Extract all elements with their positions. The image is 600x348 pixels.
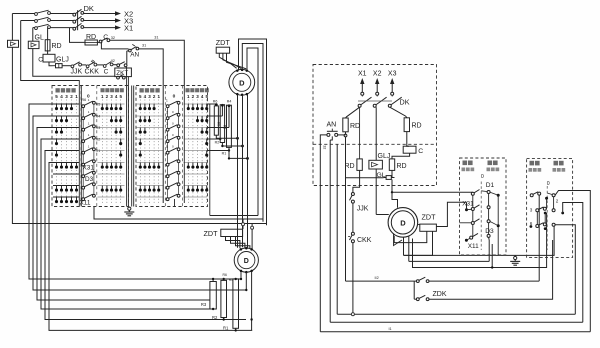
svg-text:C: C	[38, 57, 43, 64]
svg-text:CKK: CKK	[357, 237, 372, 244]
wire long h215	[210, 215, 258, 217]
wire ZDT2 stub3	[236, 237, 250, 249]
wire h322	[330, 321, 583, 323]
wire ZKT up to AN	[126, 51, 128, 64]
resistor R12 box	[227, 105, 232, 147]
wire AN1 right then down	[139, 49, 164, 86]
motor D1 bottom terminals	[236, 93, 239, 96]
knife contact row1	[35, 13, 38, 16]
wire rowD2 to R4 top	[207, 115, 223, 117]
svg-text:3: 3	[196, 94, 199, 99]
motor D2 inner	[238, 252, 255, 269]
matrix block B row 7	[98, 173, 125, 175]
svg-text:JJK: JJK	[71, 69, 83, 76]
bank R1 top stub	[235, 278, 237, 280]
wire C2-ZKT	[113, 64, 117, 66]
box1 header up	[488, 161, 493, 166]
box1 header down	[463, 161, 468, 166]
svg-text:X11: X11	[468, 243, 479, 250]
wire bundle v330	[329, 140, 331, 322]
contact CKK2	[351, 232, 354, 235]
wire L3 feed	[33, 27, 35, 29]
wire to X2	[84, 13, 115, 15]
matrix block C row 9	[137, 196, 164, 198]
svg-text:DK: DK	[84, 4, 94, 13]
matrix block B row 1	[98, 103, 125, 105]
contact JJK2	[351, 193, 354, 196]
svg-text:1: 1	[101, 94, 104, 99]
matrix block C row 3	[137, 127, 164, 129]
arrow X2	[115, 11, 121, 15]
arrow X1	[115, 25, 121, 29]
svg-text:R3: R3	[201, 302, 207, 307]
switch DK2 blades	[358, 104, 361, 107]
motor D2 top terminals	[240, 248, 243, 251]
matrix block B row 4	[98, 138, 125, 140]
motor1 rotor lead3	[247, 95, 249, 248]
svg-text:RD: RD	[345, 163, 355, 170]
relay box GLJ1 symbol	[8, 40, 19, 47]
matrix block A row 1	[53, 103, 79, 105]
controller box2 dashed	[527, 158, 573, 257]
loop1 top	[239, 39, 267, 225]
heater JR	[53, 65, 56, 67]
svg-text:0: 0	[172, 121, 174, 125]
wire motor bottom lead2	[408, 236, 410, 262]
bus between tables pair1	[131, 86, 133, 207]
svg-text:R2: R2	[212, 315, 218, 320]
box1 contact row2	[471, 208, 474, 211]
terminal X1	[361, 92, 364, 95]
matrix block C row 8	[137, 185, 164, 187]
svg-text:R2: R2	[215, 141, 220, 145]
matrix block D row 1	[184, 103, 207, 105]
svg-text:RD: RD	[52, 43, 62, 50]
svg-text:2: 2	[556, 199, 559, 204]
matrix block C row 6	[137, 162, 164, 164]
svg-text:ZDT: ZDT	[204, 229, 219, 238]
wire y192 to box1	[392, 191, 473, 193]
cam contact table2 row6	[166, 163, 169, 166]
motor D3 inner	[391, 211, 414, 234]
overcurrent relay GLJ box	[369, 160, 383, 169]
wire ZDT3 right top	[436, 202, 466, 226]
wire tap RD3	[359, 107, 361, 159]
arrow X3	[115, 18, 121, 22]
bank R1 bottom stub	[235, 328, 237, 330]
svg-text:4: 4	[201, 94, 204, 99]
svg-text:II2: II2	[111, 59, 115, 63]
fuse RD3	[357, 159, 362, 171]
svg-text:ZDK: ZDK	[433, 291, 447, 298]
svg-text:31: 31	[154, 36, 158, 40]
svg-text:5: 5	[55, 94, 58, 99]
fuse RD vertical	[45, 40, 50, 51]
wire C down to RD4	[392, 153, 410, 159]
wire rowD4 link	[207, 138, 220, 140]
wire phaseA to RD1	[346, 107, 360, 118]
box1 contact row1	[471, 192, 474, 195]
svg-text:3: 3	[148, 94, 151, 99]
svg-text:0: 0	[481, 174, 484, 180]
motor D1 inner	[233, 73, 251, 91]
svg-text:X2: X2	[373, 71, 382, 78]
box2 header up	[554, 161, 559, 166]
wire h314	[337, 313, 575, 315]
main dashed box right	[313, 65, 437, 186]
svg-text:1: 1	[187, 94, 190, 99]
bus table1 left pair	[78, 81, 80, 207]
contact ZDK top	[416, 280, 419, 283]
bank R3 top stub	[212, 279, 214, 282]
matrix block D row 5	[184, 150, 207, 152]
brake ZDT3 box	[420, 224, 437, 231]
svg-text:1: 1	[88, 121, 90, 125]
svg-text:0: 0	[172, 144, 174, 148]
box1 row3 dot	[497, 224, 500, 227]
svg-text:I1: I1	[389, 327, 392, 331]
arrow X2 up	[376, 83, 378, 92]
relay box GLJ2 symbol	[28, 41, 39, 48]
wire to motor top	[392, 192, 398, 208]
contact CKK	[86, 65, 89, 68]
svg-text:2: 2	[70, 94, 73, 99]
svg-text:GLJ: GLJ	[56, 57, 69, 64]
svg-text:RD: RD	[86, 34, 96, 41]
svg-text:32: 32	[111, 36, 115, 40]
wire RD to GLJ coil	[47, 51, 49, 54]
loop3 top	[247, 48, 258, 216]
wire ZDK top out	[429, 280, 539, 282]
ground right stem	[514, 255, 516, 256]
motor2 rotor lead2	[245, 273, 247, 290]
switch DK gang bar	[77, 10, 79, 30]
svg-text:GLJ: GLJ	[378, 153, 391, 160]
wire ZDK bracket	[414, 280, 416, 282]
svg-text:R4: R4	[96, 115, 101, 119]
matrix block D row 8	[184, 185, 207, 187]
cam contact table2 row8	[166, 186, 169, 189]
svg-text:R6: R6	[223, 273, 227, 277]
cam contact X11	[82, 198, 85, 201]
svg-text:R1: R1	[223, 325, 229, 330]
svg-text:0: 0	[173, 94, 176, 100]
wire box1 exit2 drop	[491, 244, 493, 268]
svg-text:X3: X3	[388, 71, 397, 78]
matrix block D row 7	[184, 173, 207, 175]
coil GLJ box	[43, 54, 55, 62]
wire ZDT1 stub1	[219, 53, 236, 68]
matrix block B row 8	[98, 185, 125, 187]
fuse RD2	[404, 118, 409, 132]
svg-text:R3: R3	[96, 126, 101, 130]
svg-text:RD: RD	[397, 163, 407, 170]
wire AN1 left segment	[101, 42, 128, 49]
svg-text:1: 1	[88, 133, 90, 137]
motor2 rotor lead3	[251, 272, 253, 331]
bus table2 entry wires	[162, 86, 164, 203]
contact ZKT bottom	[117, 76, 120, 79]
cam contact table2 row1	[166, 105, 169, 108]
wire box2 row2 right	[563, 203, 583, 323]
cam contact X31	[82, 163, 85, 166]
bank R3 bottom stub	[212, 308, 214, 310]
svg-text:X31: X31	[83, 165, 95, 172]
matrix block B row 3	[98, 127, 125, 129]
wire AN left	[320, 135, 327, 332]
svg-text:4: 4	[115, 94, 118, 99]
wire CKK-C	[97, 64, 103, 66]
cam contact R2 table1	[82, 140, 85, 143]
table2 internal dashed dividers	[164, 86, 166, 207]
matrix block A row 3	[53, 127, 79, 129]
matrix block D row 2	[184, 115, 207, 117]
svg-text:RD: RD	[412, 123, 422, 130]
box1 dot X31	[465, 208, 468, 211]
wire rowD3 to R top	[207, 127, 229, 129]
wire ZDT3 stub down1	[394, 231, 427, 242]
matrix block D row 6	[184, 162, 207, 164]
wire RD2 down to C	[407, 132, 409, 147]
svg-text:1: 1	[157, 94, 160, 99]
contact ZDK bottom	[416, 298, 419, 301]
connector circle c2	[242, 219, 244, 229]
table2 header up-forward	[186, 88, 190, 92]
svg-text:II2: II2	[375, 276, 379, 280]
table1 header up-close	[101, 88, 105, 92]
wire CKK down	[352, 243, 354, 314]
connector circle c1	[251, 224, 253, 250]
svg-text:1: 1	[166, 99, 168, 103]
arrow X3 up	[391, 83, 393, 92]
svg-text:2: 2	[153, 94, 156, 99]
svg-text:5: 5	[205, 94, 208, 99]
inner dashed divider right	[313, 143, 437, 145]
box2 row1 dot	[545, 197, 548, 200]
cam contact table2 row7	[166, 175, 169, 178]
switch DK blade row3	[73, 27, 76, 30]
svg-text:R6: R6	[82, 98, 87, 102]
cam contact R3 table1	[82, 128, 85, 131]
svg-text:JJK: JJK	[357, 206, 369, 213]
wire ZDK bottom out	[429, 240, 553, 299]
motor2 rotor lead1	[240, 272, 242, 280]
contact JJK	[71, 65, 74, 68]
switch DK blade row1	[73, 13, 76, 16]
bank R2 bottom stub	[223, 318, 225, 320]
wire RD4 down	[391, 170, 393, 177]
box1 row1 dot	[497, 194, 500, 197]
cam contact D3	[82, 175, 85, 178]
wire to X3	[84, 20, 115, 22]
wire bundle v330 top	[330, 136, 332, 140]
fuse RD4	[389, 159, 394, 171]
svg-text:D: D	[400, 218, 406, 227]
motor D3 outer	[388, 208, 418, 238]
svg-text:1: 1	[88, 110, 90, 114]
wire h215 left end	[209, 104, 211, 216]
wire GL link	[346, 177, 384, 179]
svg-text:D3: D3	[85, 176, 94, 183]
matrix block D row 3	[184, 127, 207, 129]
terminal X3	[391, 92, 394, 95]
box2 header down	[530, 161, 535, 166]
wire box2 col554 up	[553, 226, 555, 235]
wire R12 bottom lead	[229, 147, 248, 158]
svg-text:R5: R5	[229, 278, 233, 282]
svg-text:R6: R6	[213, 99, 218, 103]
controller table1 dashed box	[52, 86, 129, 207]
contact AN1	[129, 49, 132, 52]
svg-text:0: 0	[172, 110, 174, 114]
cam contact R1 table1	[82, 151, 85, 154]
box1 center dashed	[480, 182, 482, 251]
wire box2 row1 right	[555, 191, 590, 332]
svg-text:AN: AN	[130, 52, 139, 59]
wire motor bottom lead1	[403, 237, 405, 255]
svg-text:0: 0	[547, 181, 550, 187]
wire box2 row3 right	[555, 225, 575, 314]
wire stair3 row to bottom	[37, 128, 210, 301]
motor1 rotor lead2	[242, 95, 244, 247]
resistor bank R2 box	[221, 280, 227, 317]
column guides block D	[187, 100, 189, 204]
svg-text:R5: R5	[96, 103, 101, 107]
matrix block B row 5	[98, 150, 125, 152]
pushbutton AN	[327, 133, 330, 136]
wire L1 feed	[12, 13, 34, 15]
svg-text:D3: D3	[485, 228, 494, 235]
contact ZKT top	[117, 64, 120, 67]
wire box1 row3 in	[460, 222, 472, 224]
wire stair4 row to bottom	[41, 139, 213, 309]
arrow X1 up	[361, 83, 363, 92]
wire phaseB down	[375, 107, 377, 160]
wire bundle v337	[336, 144, 338, 314]
matrix block C row 7	[137, 173, 164, 175]
svg-text:2: 2	[192, 94, 195, 99]
wire ZDT2 stub2	[231, 237, 245, 249]
svg-text:RD: RD	[350, 123, 360, 130]
svg-text:ZDT: ZDT	[216, 38, 231, 47]
table1 header down-reverse	[56, 88, 60, 92]
table2 header down-reverse	[140, 88, 144, 92]
svg-text:3: 3	[530, 208, 533, 213]
svg-text:R4: R4	[227, 99, 232, 103]
svg-text:X31: X31	[462, 201, 474, 208]
fuse RD1	[343, 118, 348, 132]
wire row3 to RD	[47, 28, 49, 40]
svg-text:X1: X1	[124, 24, 133, 33]
table2 0-col chain wires	[167, 108, 169, 117]
matrix block C row 4	[137, 138, 164, 140]
svg-text:C: C	[104, 69, 109, 76]
svg-text:6: 6	[530, 221, 533, 226]
wire RD1 down	[345, 132, 347, 134]
wire rowD5 link	[207, 150, 229, 152]
wire ZDT1 stub2	[223, 53, 241, 68]
wire motor-ZDT3	[418, 224, 420, 226]
fuse RD horizontal	[85, 40, 97, 45]
wire stair6 row to bottom	[49, 163, 252, 331]
cam contact table2 row2	[166, 117, 169, 120]
wire ZDT2 stub1	[226, 237, 240, 249]
wire stair2 row to bottom	[33, 116, 246, 290]
svg-text:C: C	[418, 148, 423, 155]
box ZKT	[115, 68, 132, 77]
wire RD2-C3	[97, 41, 99, 43]
box1 contact row3	[471, 222, 474, 225]
wire box1 row4 out	[488, 237, 491, 240]
svg-text:3: 3	[65, 94, 68, 99]
wire h281 to ZDK	[346, 280, 415, 282]
GL contact symbol	[384, 177, 387, 179]
wire row3 tap down	[70, 28, 86, 43]
wire R34 bottom lead	[222, 143, 242, 147]
matrix block A row 4	[53, 138, 79, 140]
svg-text:C: C	[103, 34, 108, 41]
resistor R5 box	[214, 106, 218, 135]
wire box1 X11 drop	[488, 240, 490, 261]
cam contact R4 table1	[82, 117, 85, 120]
terminal X2	[376, 92, 379, 95]
svg-text:CKK: CKK	[85, 69, 100, 76]
wire stair5 row to bottom	[45, 151, 246, 320]
controller table2 dashed box	[136, 86, 208, 207]
knife contact row2	[35, 20, 38, 23]
table1 0-col chain wires	[82, 108, 84, 117]
matrix block B row 2	[98, 115, 125, 117]
svg-text:32: 32	[323, 145, 327, 149]
box2 contact row3	[536, 225, 539, 228]
svg-text:AN: AN	[327, 122, 337, 129]
matrix block A row 9	[53, 196, 79, 198]
motor D1 outer	[229, 69, 255, 95]
wire box1 row2 in	[466, 202, 468, 210]
box2 center dashed	[546, 186, 548, 250]
box1 contact row4	[470, 236, 473, 239]
matrix block A row 8	[53, 185, 79, 187]
resistor R34 box	[220, 105, 224, 143]
brake ZDT1 box	[216, 47, 229, 53]
matrix block C row 5	[137, 150, 164, 152]
cam contact row8 table1	[82, 186, 85, 189]
wire L2 feed	[21, 20, 35, 22]
cam contact table2 row4	[166, 140, 169, 143]
wire stair1 row to bottom	[29, 104, 241, 279]
cam contact R5 table1	[82, 105, 85, 108]
svg-text:1: 1	[88, 144, 90, 148]
svg-text:31: 31	[142, 43, 146, 47]
wire motor lead h267	[413, 213, 547, 268]
wire GLJ down	[375, 169, 377, 215]
matrix block C row 1	[137, 103, 164, 105]
wire JJK-CKK	[82, 64, 87, 66]
svg-text:1: 1	[75, 94, 78, 99]
wire phaseC to RD2	[390, 107, 407, 118]
table1 internal dashed dividers	[80, 86, 82, 207]
matrix block D row 9	[184, 196, 207, 198]
loop2 top	[242, 44, 263, 222]
column guides block B	[101, 100, 103, 204]
cam contact table2 row3	[166, 128, 169, 131]
wire ZDT1 stub3	[227, 53, 247, 69]
motor1 rotor lead1	[237, 95, 239, 248]
wire GLJ2 down	[33, 49, 115, 77]
wire R5 bottom lead	[216, 135, 237, 138]
box2 contact row2	[536, 209, 539, 212]
svg-text:2: 2	[106, 94, 109, 99]
